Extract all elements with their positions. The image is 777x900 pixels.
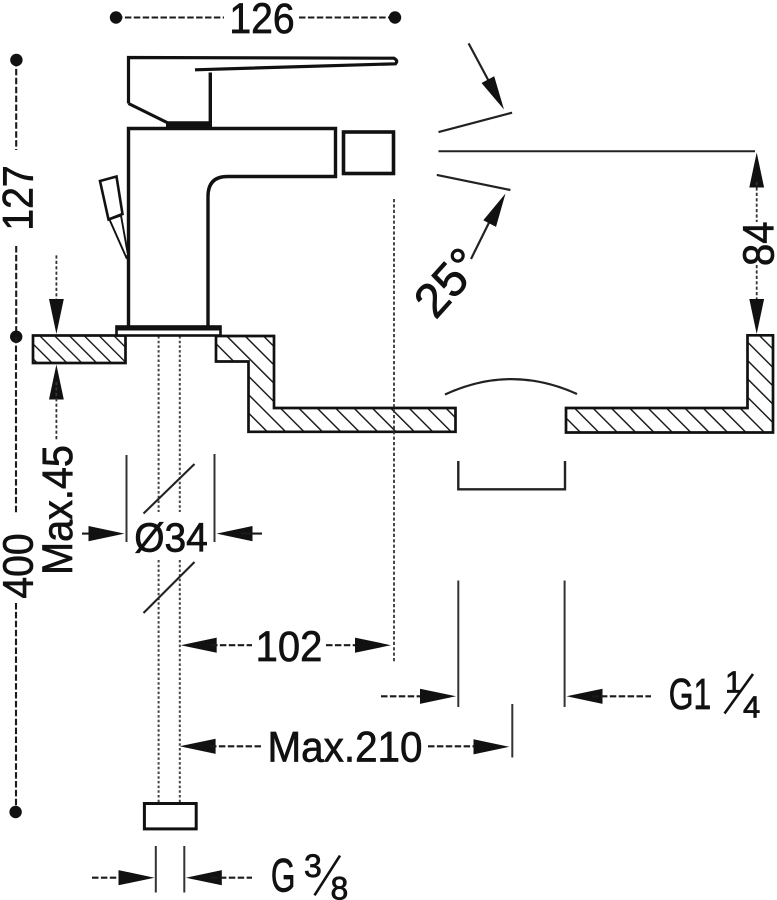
rod end nut [144,804,196,829]
svg-text:Ø34: Ø34 [134,516,208,561]
dim G 3/8 [155,846,157,893]
dim 400 (left) [15,337,17,514]
svg-text:25°: 25° [404,238,492,327]
svg-text:G1: G1 [669,670,711,719]
svg-text:G: G [271,850,296,900]
dim 102 [181,638,217,653]
dim 127 (left upper) [15,60,17,150]
spray lower boundary line [437,175,511,190]
svg-text:102: 102 [256,622,323,671]
side lever shaft [110,216,129,258]
base flange [117,327,221,336]
drain arc [445,379,577,394]
dim G1 1/4 [457,581,459,708]
spout aerator [344,132,394,174]
counter right section with wall (hatched) [566,335,773,432]
cartridge cap line [166,121,212,127]
rod break mark upper [144,464,195,514]
svg-text:127: 127 [0,165,42,230]
leader arrow from 25 deg label [471,207,497,260]
faucet handle lever [129,58,397,104]
counter middle section with step (hatched) [216,336,456,432]
svg-text:Max.45: Max.45 [33,445,81,575]
counter left section (hatched) [33,336,126,364]
svg-text:Max.210: Max.210 [268,722,423,770]
spray upper boundary line [439,113,513,132]
svg-text:4: 4 [743,689,760,724]
drain outline bracket [458,461,565,489]
svg-text:8: 8 [331,871,349,900]
dim O34 [126,455,128,542]
extension line from spout edge [393,199,395,662]
svg-text:3: 3 [304,848,322,884]
supply rod [158,336,160,512]
dim 84 (right) [749,153,764,188]
side lever knob [100,177,123,220]
spray axis line [439,150,756,152]
dim 126 (top) [116,16,224,18]
svg-text:126: 126 [229,0,294,43]
dim Max.210 [180,739,216,754]
rod break mark lower [144,562,195,613]
dim Max.45 [55,255,57,303]
leader arrow to upper spray line [469,43,497,95]
svg-text:84: 84 [734,221,777,266]
faucet body [129,129,336,327]
